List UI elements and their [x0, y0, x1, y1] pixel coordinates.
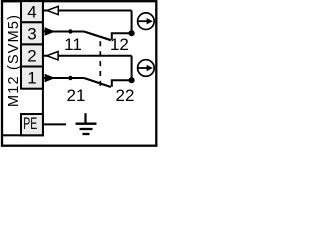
pin box 2	[21, 44, 43, 66]
signal direction triangle pin 2 (open, pointing left)	[47, 52, 58, 60]
NC contact blade 11-12	[84, 32, 111, 41]
signal direction arrow pin 1 (filled, pointing right)	[45, 74, 56, 82]
wire pin 2 vertical drop to contact 22	[131, 56, 133, 80]
pin box PE	[21, 114, 43, 135]
connector body M12 (SVM5)	[2, 1, 43, 135]
junction dot at contact 12 feed	[129, 30, 135, 36]
svg-text:M12 (SVM5): M12 (SVM5)	[6, 15, 22, 107]
signal direction arrow pin 3 (filled, pointing right)	[45, 27, 56, 35]
wire PE	[43, 123, 66, 125]
svg-text:4: 4	[27, 3, 36, 22]
junction dot at contact 22 feed	[129, 77, 135, 83]
pin box 3	[21, 22, 43, 44]
pin box 1	[21, 67, 43, 89]
actuation direction symbol (bottom)	[138, 60, 155, 77]
svg-text:11: 11	[64, 35, 82, 54]
svg-text:2: 2	[27, 46, 36, 65]
pin box 4	[21, 1, 43, 22]
wire pin 1	[43, 77, 84, 79]
signal direction triangle pin 4 (open, pointing left)	[47, 6, 58, 14]
wire pin 2 horizontal	[43, 55, 132, 57]
ground symbol	[76, 113, 97, 134]
wire stub to fixed contact 12	[112, 33, 132, 40]
svg-text:21: 21	[67, 86, 86, 105]
svg-text:3: 3	[27, 24, 36, 43]
wire pin 4 horizontal	[43, 10, 132, 12]
svg-text:PE: PE	[23, 114, 37, 133]
junction dot node 11	[68, 29, 72, 33]
svg-text:22: 22	[116, 86, 135, 105]
wire pin 4 vertical drop to contact 12	[131, 11, 133, 34]
actuation direction symbol (top)	[138, 13, 155, 30]
wire pin 3	[43, 31, 84, 33]
wire stub to fixed contact 22	[112, 80, 132, 87]
svg-text:1: 1	[27, 69, 36, 88]
NC contact blade 21-22	[84, 78, 111, 87]
svg-text:12: 12	[110, 35, 129, 54]
mechanical linkage dashed line	[99, 41, 101, 86]
junction dot node 21	[68, 76, 72, 80]
